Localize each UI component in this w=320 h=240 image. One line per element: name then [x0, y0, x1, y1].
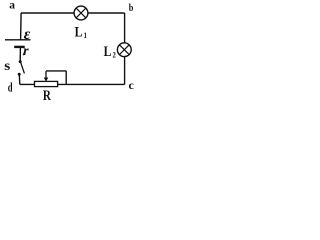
switch S: top terminal dot [19, 60, 22, 63]
svg-text:L2: L2 [104, 42, 116, 59]
lamp L2 [117, 43, 131, 57]
switch S: handle tick [23, 52, 24, 55]
switch S: blade [21, 62, 25, 73]
wire battery to switch [19, 47, 21, 62]
svg-text:b: b [129, 2, 134, 14]
svg-text:s: s [4, 58, 10, 73]
svg-text:ε: ε [24, 26, 31, 43]
svg-text:R: R [43, 86, 51, 103]
svg-text:L1: L1 [75, 23, 87, 40]
wire top a-b [21, 12, 125, 14]
svg-text:d: d [8, 80, 13, 95]
svg-text:a: a [9, 0, 15, 12]
wire switch to d [18, 74, 21, 84]
battery: short thick plate (negative) [14, 46, 25, 48]
wire wiper bridge down [65, 71, 67, 85]
lamp L1 [74, 6, 88, 20]
wire left a to battery [20, 13, 23, 40]
svg-text:c: c [129, 78, 135, 92]
wire bottom d-c [20, 83, 125, 85]
battery: long plate (positive) [5, 39, 31, 41]
wire right b-c [124, 13, 126, 84]
wire wiper bridge top [46, 70, 66, 72]
rheostat wiper arrow [44, 71, 49, 82]
resistor R (rheostat) body [35, 81, 58, 86]
switch S: bottom terminal dot [18, 73, 21, 76]
svg-text:r: r [23, 44, 29, 59]
